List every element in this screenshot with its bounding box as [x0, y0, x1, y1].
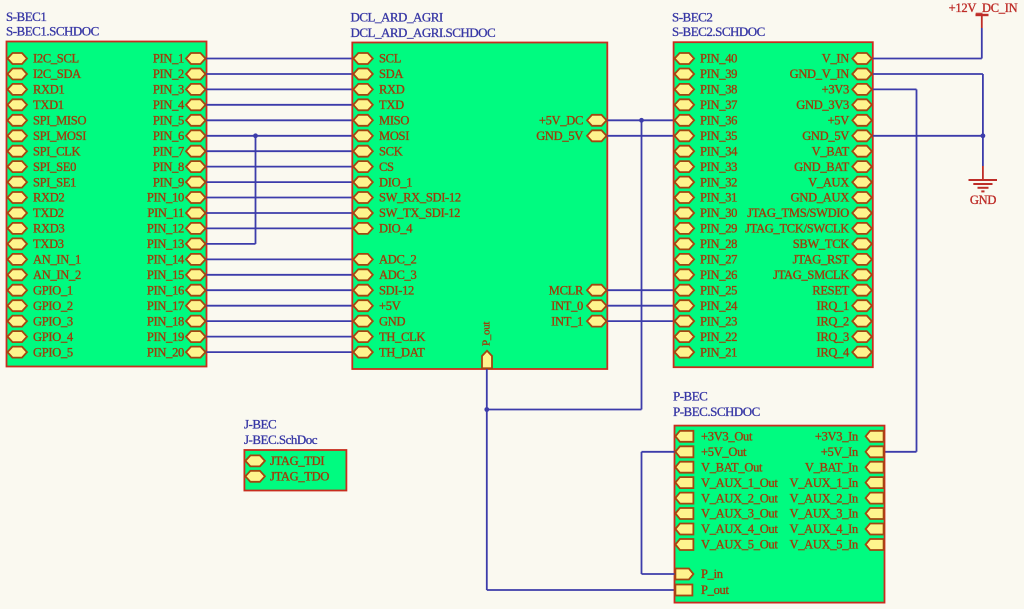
- svg-text:PIN_6: PIN_6: [153, 129, 184, 143]
- svg-text:JTAG_TDO: JTAG_TDO: [270, 470, 329, 484]
- sheet entry DCL RXD: [353, 83, 404, 97]
- svg-text:PIN_27: PIN_27: [700, 253, 737, 267]
- sheet entry S-BEC1 AN_IN_2: [8, 268, 81, 282]
- svg-text:+5V: +5V: [379, 299, 401, 313]
- svg-text:PIN_8: PIN_8: [153, 160, 184, 174]
- wire INT_1 to PIN_23: [607, 320, 673, 322]
- sheet entry P-BEC V_AUX_5_Out: [675, 538, 778, 552]
- wire V_IN riser to +12V_DC_IN: [981, 28, 983, 59]
- wire PIN_13 stub: [207, 243, 256, 245]
- svg-text:AN_IN_2: AN_IN_2: [33, 268, 81, 282]
- sheet entry S-BEC2 +5V: [828, 114, 872, 128]
- sheet entry P-BEC V_AUX_2_In: [789, 491, 883, 505]
- svg-text:PIN_13: PIN_13: [147, 237, 184, 251]
- sheet entry DCL INT_1: [551, 314, 606, 328]
- sheet entry P-BEC P_out: [675, 583, 729, 597]
- svg-text:+5V_Out: +5V_Out: [701, 445, 747, 459]
- sheet entry S-BEC1 SPI_MOSI: [8, 129, 87, 143]
- svg-text:PIN_9: PIN_9: [153, 175, 184, 189]
- wire PIN_17 to +5V: [207, 305, 353, 307]
- wire INT_0 to PIN_24: [607, 305, 673, 307]
- svg-text:PIN_12: PIN_12: [147, 222, 184, 236]
- sheet entry DCL P_out: [481, 322, 493, 369]
- sheet entry S-BEC1 PIN_16: [147, 283, 206, 297]
- svg-text:V_AUX_5_Out: V_AUX_5_Out: [701, 538, 778, 552]
- svg-text:+5V_DC: +5V_DC: [539, 114, 583, 128]
- svg-text:TH_DAT: TH_DAT: [379, 345, 425, 359]
- sheet entry S-BEC2 PIN_32: [675, 175, 738, 189]
- svg-text:PIN_19: PIN_19: [147, 330, 184, 344]
- wire PIN_12 to DIO_4: [207, 227, 353, 229]
- sheet entry P-BEC V_BAT_In: [805, 460, 884, 474]
- svg-text:SPI_SE1: SPI_SE1: [33, 175, 76, 189]
- svg-text:V_AUX_4_In: V_AUX_4_In: [789, 522, 859, 536]
- sheet entry S-BEC1 PIN_9: [153, 175, 206, 189]
- svg-text:TXD2: TXD2: [33, 206, 64, 220]
- sheet entry S-BEC1 PIN_6: [153, 129, 206, 143]
- junction MOSI net: [253, 133, 258, 138]
- wire +3V3 vertical to P-BEC: [916, 89, 918, 451]
- svg-text:PIN_3: PIN_3: [153, 83, 184, 97]
- svg-text:TH_CLK: TH_CLK: [379, 330, 425, 344]
- sheet symbol S-BEC1: [7, 42, 207, 367]
- sheet entry S-BEC2 PIN_27: [675, 253, 738, 267]
- sheet entry DCL TXD: [353, 98, 404, 112]
- svg-text:PIN_38: PIN_38: [700, 83, 737, 97]
- svg-text:GND_BAT: GND_BAT: [794, 160, 850, 174]
- svg-text:P-BEC.SCHDOC: P-BEC.SCHDOC: [673, 404, 760, 419]
- svg-text:V_AUX_4_Out: V_AUX_4_Out: [701, 522, 778, 536]
- svg-text:V_BAT_In: V_BAT_In: [805, 460, 859, 474]
- sheet entry S-BEC2 V_AUX: [808, 175, 872, 189]
- svg-text:GPIO_2: GPIO_2: [33, 299, 73, 313]
- sheet entry S-BEC1 TXD3: [8, 237, 64, 251]
- svg-text:RXD: RXD: [379, 83, 405, 97]
- sheet entry S-BEC1 PIN_19: [147, 330, 206, 344]
- svg-text:MISO: MISO: [379, 114, 409, 128]
- wire +3V3: [873, 88, 917, 90]
- svg-text:PIN_22: PIN_22: [700, 330, 737, 344]
- svg-text:V_BAT_Out: V_BAT_Out: [701, 460, 763, 474]
- svg-text:+5V_In: +5V_In: [821, 445, 859, 459]
- wire PIN_3 to RXD: [207, 88, 353, 90]
- svg-text:PIN_21: PIN_21: [700, 345, 737, 359]
- sheet entry DCL SDI-12: [353, 283, 414, 297]
- wire to +5V_In: [885, 451, 917, 453]
- wire V_IN: [873, 58, 982, 60]
- sheet entry J-BEC JTAG_TDO: [245, 470, 329, 484]
- power port +12V_DC_IN: [949, 1, 1018, 28]
- sheet entry S-BEC1 PIN_20: [147, 345, 206, 359]
- sheet entry S-BEC1 TXD1: [8, 98, 64, 112]
- sheet entry DCL SW_RX_SDI-12: [353, 191, 461, 205]
- sheet entry S-BEC2 PIN_29: [675, 222, 738, 236]
- wire PIN_1 to SCL: [207, 58, 353, 60]
- svg-text:P_out: P_out: [701, 583, 730, 597]
- sheet entry S-BEC2 PIN_33: [675, 160, 738, 174]
- sheet entry S-BEC1 RXD1: [8, 83, 65, 97]
- svg-text:V_BAT: V_BAT: [812, 144, 850, 158]
- svg-text:PIN_4: PIN_4: [153, 98, 185, 112]
- sheet entry S-BEC1 SPI_SE0: [8, 160, 77, 174]
- sheet entry S-BEC2 PIN_23: [675, 314, 738, 328]
- wire GND_5V to PIN_35: [607, 135, 673, 137]
- sheet entry S-BEC2 V_BAT: [812, 144, 872, 158]
- svg-text:JTAG_TDI: JTAG_TDI: [270, 454, 324, 468]
- sheet entry P-BEC V_AUX_4_In: [789, 522, 883, 536]
- wire PIN_14 to ADC_2: [207, 258, 353, 260]
- sheet entry P-BEC V_AUX_3_In: [789, 507, 883, 521]
- wire PIN_7 to SCK: [207, 150, 353, 152]
- svg-text:GPIO_5: GPIO_5: [33, 345, 73, 359]
- svg-text:PIN_25: PIN_25: [700, 283, 737, 297]
- sheet symbol DCL_ARD_AGRI: [352, 43, 607, 370]
- sheet entry S-BEC1 PIN_2: [153, 67, 206, 81]
- svg-text:V_AUX: V_AUX: [808, 175, 849, 189]
- svg-text:ADC_2: ADC_2: [379, 253, 416, 267]
- sheet entry S-BEC1 PIN_12: [147, 222, 206, 236]
- svg-text:P_out: P_out: [481, 322, 493, 346]
- svg-text:V_AUX_1_Out: V_AUX_1_Out: [701, 476, 778, 490]
- svg-text:PIN_33: PIN_33: [700, 160, 737, 174]
- sheet entry S-BEC2 GND_5V: [802, 129, 872, 143]
- svg-text:DCL_ARD_AGRI: DCL_ARD_AGRI: [351, 10, 443, 25]
- wire +5V_DC to PIN_36: [607, 119, 673, 121]
- wire PIN_4 to TXD: [207, 104, 353, 106]
- sheet entry S-BEC2 PIN_28: [675, 237, 738, 251]
- svg-text:I2C_SCL: I2C_SCL: [33, 52, 79, 66]
- wire DCL P_out vertical: [486, 369, 488, 590]
- wire PIN_9 to DIO_1: [207, 181, 353, 183]
- svg-text:IRQ_3: IRQ_3: [816, 330, 849, 344]
- sheet entry S-BEC1 SPI_CLK: [8, 144, 81, 158]
- svg-text:PIN_18: PIN_18: [147, 314, 184, 328]
- sheet entry S-BEC2 IRQ_4: [816, 345, 871, 359]
- svg-text:P-BEC: P-BEC: [673, 389, 707, 404]
- sheet entry J-BEC JTAG_TDI: [245, 454, 324, 468]
- svg-text:S-BEC1.SCHDOC: S-BEC1.SCHDOC: [6, 24, 99, 39]
- svg-text:SCK: SCK: [379, 144, 403, 158]
- svg-text:PIN_5: PIN_5: [153, 114, 184, 128]
- svg-text:SCL: SCL: [379, 52, 401, 66]
- wire PIN_11 to SW_TX_SDI-12: [207, 212, 353, 214]
- svg-text:V_AUX_1_In: V_AUX_1_In: [789, 476, 859, 490]
- wire +5V_DC vertical drop: [641, 120, 643, 409]
- sheet entry DCL DIO_1: [353, 175, 412, 189]
- ground GND: [969, 166, 998, 207]
- svg-text:J-BEC: J-BEC: [244, 417, 276, 432]
- svg-text:P_in: P_in: [701, 567, 724, 581]
- sheet entry DCL SW_TX_SDI-12: [353, 206, 460, 220]
- sheet entry DCL ADC_3: [353, 268, 416, 282]
- svg-text:V_AUX_2_Out: V_AUX_2_Out: [701, 491, 778, 505]
- svg-text:SPI_CLK: SPI_CLK: [33, 144, 80, 158]
- svg-text:MOSI: MOSI: [379, 129, 409, 143]
- svg-text:DIO_1: DIO_1: [379, 175, 412, 189]
- sheet entry S-BEC1 RXD2: [8, 191, 65, 205]
- sheet entry S-BEC2 PIN_34: [675, 144, 739, 158]
- junction GND net: [981, 133, 986, 138]
- sheet entry DCL SCK: [353, 144, 402, 158]
- sheet entry DCL MCLR: [549, 283, 607, 297]
- svg-text:DIO_4: DIO_4: [379, 222, 413, 236]
- svg-text:GPIO_1: GPIO_1: [33, 283, 73, 297]
- wire PIN_18 to GND: [207, 320, 353, 322]
- wire GND_V_IN vertical to GND net: [982, 74, 984, 136]
- svg-text:MCLR: MCLR: [549, 283, 584, 297]
- svg-text:PIN_7: PIN_7: [153, 144, 184, 158]
- sheet entry S-BEC1 PIN_10: [147, 191, 206, 205]
- sheet entry P-BEC V_AUX_4_Out: [675, 522, 778, 536]
- sheet entry S-BEC2 IRQ_1: [816, 299, 871, 313]
- svg-text:IRQ_4: IRQ_4: [816, 345, 850, 359]
- wire +5V_Out stub: [642, 451, 675, 453]
- sheet entry P-BEC +5V_Out: [675, 445, 747, 459]
- sheet entry S-BEC1 PIN_14: [147, 253, 206, 267]
- sheet entry S-BEC2 GND_BAT: [794, 160, 872, 174]
- svg-text:JTAG_RST: JTAG_RST: [793, 253, 850, 267]
- sheet entry DCL GND: [353, 314, 405, 328]
- sheet entry S-BEC1 PIN_7: [153, 144, 206, 158]
- sheet entry S-BEC1 TXD2: [8, 206, 64, 220]
- sheet entry S-BEC2 PIN_35: [675, 129, 738, 143]
- sheet symbol P-BEC: [675, 426, 885, 603]
- svg-text:PIN_11: PIN_11: [147, 206, 184, 220]
- svg-text:SPI_MOSI: SPI_MOSI: [33, 129, 86, 143]
- svg-text:PIN_15: PIN_15: [147, 268, 184, 282]
- junction +5V_DC net: [639, 118, 644, 123]
- sheet entry S-BEC2 JTAG_TCK/SWCLK: [745, 222, 872, 236]
- sheet entry DCL ADC_2: [353, 253, 416, 267]
- sheet entry S-BEC2 PIN_24: [675, 299, 739, 313]
- sheet entry S-BEC1 PIN_5: [153, 114, 206, 128]
- svg-text:PIN_1: PIN_1: [153, 52, 184, 66]
- svg-text:CS: CS: [379, 160, 394, 174]
- svg-text:V_AUX_3_In: V_AUX_3_In: [789, 507, 859, 521]
- sheet entry S-BEC2 PIN_39: [675, 67, 738, 81]
- svg-text:RXD3: RXD3: [33, 222, 64, 236]
- svg-text:IRQ_2: IRQ_2: [816, 314, 849, 328]
- sheet entry DCL +5V: [353, 299, 400, 313]
- svg-text:GND_5V: GND_5V: [802, 129, 849, 143]
- svg-text:PIN_16: PIN_16: [147, 283, 184, 297]
- sheet entry S-BEC1 PIN_1: [153, 52, 206, 66]
- svg-text:V_AUX_5_In: V_AUX_5_In: [789, 538, 859, 552]
- wire PIN_13 vertical to MOSI net: [255, 136, 257, 244]
- svg-text:SW_RX_SDI-12: SW_RX_SDI-12: [379, 191, 461, 205]
- svg-text:AN_IN_1: AN_IN_1: [33, 253, 81, 267]
- sheet entry P-BEC V_AUX_1_In: [789, 476, 883, 490]
- svg-text:SBW_TCK: SBW_TCK: [793, 237, 850, 251]
- svg-text:S-BEC2.SCHDOC: S-BEC2.SCHDOC: [672, 24, 765, 39]
- svg-text:PIN_37: PIN_37: [700, 98, 737, 112]
- svg-text:GND_5V: GND_5V: [536, 129, 583, 143]
- svg-text:SPI_SE0: SPI_SE0: [33, 160, 76, 174]
- sheet entry S-BEC1 RXD3: [8, 222, 65, 236]
- sheet entry S-BEC2 GND_AUX: [791, 191, 872, 205]
- svg-text:PIN_20: PIN_20: [147, 345, 184, 359]
- sheet entry S-BEC1 PIN_8: [153, 160, 206, 174]
- sheet entry S-BEC1 PIN_11: [147, 206, 205, 220]
- wire PIN_20 to TH_DAT: [207, 351, 353, 353]
- sheet entry S-BEC2 JTAG_TMS/SWDIO: [747, 206, 872, 220]
- sheet entry DCL DIO_4: [353, 222, 413, 236]
- sheet entry P-BEC V_BAT_Out: [675, 460, 763, 474]
- sheet entry P-BEC V_AUX_5_In: [789, 538, 883, 552]
- sheet entry S-BEC2 PIN_36: [675, 114, 738, 128]
- wire PIN_8 to CS: [207, 166, 353, 168]
- sheet entry S-BEC2 PIN_31: [675, 191, 738, 205]
- svg-text:PIN_39: PIN_39: [700, 67, 737, 81]
- sheet entry S-BEC2 JTAG_SMCLK: [773, 268, 872, 282]
- sheet entry DCL SCL: [353, 52, 401, 66]
- sheet entry S-BEC1 PIN_17: [147, 299, 206, 313]
- wire MCLR to PIN_25: [607, 289, 673, 291]
- svg-text:GND_AUX: GND_AUX: [791, 191, 850, 205]
- svg-text:GND: GND: [379, 314, 405, 328]
- svg-text:V_IN: V_IN: [822, 52, 850, 66]
- sheet entry S-BEC2 GND_3V3: [796, 98, 872, 112]
- svg-text:PIN_2: PIN_2: [153, 67, 184, 81]
- wire GND net drop: [982, 136, 984, 166]
- svg-text:TXD3: TXD3: [33, 237, 64, 251]
- wire PIN_15 to ADC_3: [207, 274, 353, 276]
- sheet entry S-BEC2 PIN_30: [675, 206, 738, 220]
- svg-text:+3V3_In: +3V3_In: [815, 430, 859, 444]
- svg-text:I2C_SDA: I2C_SDA: [33, 67, 81, 81]
- svg-text:TXD1: TXD1: [33, 98, 64, 112]
- sheet entry S-BEC2 PIN_40: [675, 52, 738, 66]
- svg-text:TXD: TXD: [379, 98, 404, 112]
- svg-text:SPI_MISO: SPI_MISO: [33, 114, 86, 128]
- sheet entry DCL +5V_DC: [539, 114, 607, 128]
- sheet entry P-BEC V_AUX_3_Out: [675, 507, 778, 521]
- sheet entry S-BEC1 GPIO_3: [8, 314, 73, 328]
- svg-text:V_AUX_3_Out: V_AUX_3_Out: [701, 507, 778, 521]
- svg-text:PIN_30: PIN_30: [700, 206, 737, 220]
- sheet entry S-BEC1 PIN_3: [153, 83, 206, 97]
- sheet entry S-BEC2 +3V3: [822, 83, 872, 97]
- sheet entry P-BEC V_AUX_2_Out: [675, 491, 778, 505]
- sheet entry S-BEC1 SPI_MISO: [8, 114, 87, 128]
- sheet entry P-BEC V_AUX_1_Out: [675, 476, 778, 490]
- svg-text:RXD1: RXD1: [33, 83, 64, 97]
- sheet entry S-BEC2 JTAG_RST: [793, 253, 872, 267]
- svg-text:JTAG_SMCLK: JTAG_SMCLK: [773, 268, 849, 282]
- svg-text:GND: GND: [970, 193, 996, 207]
- sheet entry S-BEC1 PIN_4: [153, 98, 206, 112]
- sheet entry S-BEC1 GPIO_5: [8, 345, 73, 359]
- svg-text:GND_3V3: GND_3V3: [796, 98, 849, 112]
- sheet entry S-BEC1 GPIO_1: [8, 283, 73, 297]
- svg-text:DCL_ARD_AGRI.SCHDOC: DCL_ARD_AGRI.SCHDOC: [351, 25, 496, 40]
- svg-text:PIN_36: PIN_36: [700, 114, 737, 128]
- svg-text:INT_0: INT_0: [551, 299, 583, 313]
- svg-text:PIN_10: PIN_10: [147, 191, 184, 205]
- svg-text:IRQ_1: IRQ_1: [816, 299, 849, 313]
- svg-text:PIN_29: PIN_29: [700, 222, 737, 236]
- svg-text:+5V: +5V: [828, 114, 850, 128]
- svg-text:J-BEC.SchDoc: J-BEC.SchDoc: [244, 432, 318, 447]
- sheet entry DCL TH_DAT: [353, 345, 425, 359]
- svg-text:SDA: SDA: [379, 67, 403, 81]
- svg-text:RXD2: RXD2: [33, 191, 64, 205]
- sheet entry S-BEC2 PIN_21: [675, 345, 738, 359]
- sheet entry S-BEC2 RESET: [812, 283, 872, 297]
- sheet entry S-BEC2 IRQ_3: [816, 330, 871, 344]
- wire PIN_2 to SDA: [207, 73, 353, 75]
- wire PIN_16 to SDI-12: [207, 289, 353, 291]
- wire PIN_5 to MISO: [207, 119, 353, 121]
- sheet entry P-BEC +3V3_Out: [675, 430, 753, 444]
- sheet entry DCL INT_0: [551, 299, 606, 313]
- sheet entry P-BEC P_in: [675, 567, 723, 581]
- svg-text:+3V3: +3V3: [822, 83, 849, 97]
- sheet entry S-BEC2 PIN_37: [675, 98, 738, 112]
- svg-text:V_AUX_2_In: V_AUX_2_In: [789, 491, 859, 505]
- svg-text:+3V3_Out: +3V3_Out: [701, 430, 753, 444]
- sheet entry DCL SDA: [353, 67, 403, 81]
- sheet entry S-BEC2 PIN_38: [675, 83, 738, 97]
- svg-text:PIN_17: PIN_17: [147, 299, 184, 313]
- wire PIN_19 to TH_CLK: [207, 336, 353, 338]
- sheet entry S-BEC1 PIN_13: [147, 237, 206, 251]
- sheet entry S-BEC1 I2C_SDA: [8, 67, 82, 81]
- svg-text:SDI-12: SDI-12: [379, 283, 414, 297]
- svg-text:JTAG_TCK/SWCLK: JTAG_TCK/SWCLK: [745, 222, 849, 236]
- sheet entry S-BEC2 GND_V_IN: [790, 67, 872, 81]
- svg-text:GPIO_4: GPIO_4: [33, 330, 74, 344]
- svg-text:INT_1: INT_1: [551, 314, 583, 328]
- wire PIN_10 to SW_RX_SDI-12: [207, 197, 353, 199]
- sheet entry S-BEC2 PIN_22: [675, 330, 738, 344]
- wire PIN_6 to MOSI: [207, 135, 353, 137]
- svg-text:PIN_32: PIN_32: [700, 175, 737, 189]
- svg-text:PIN_24: PIN_24: [700, 299, 738, 313]
- sheet entry DCL MISO: [353, 114, 409, 128]
- sheet entry S-BEC2 PIN_26: [675, 268, 738, 282]
- sheet entry S-BEC2 PIN_25: [675, 283, 738, 297]
- svg-text:+12V_DC_IN: +12V_DC_IN: [949, 1, 1018, 15]
- sheet entry S-BEC2 IRQ_2: [816, 314, 871, 328]
- svg-text:PIN_14: PIN_14: [147, 253, 185, 267]
- sheet entry S-BEC1 AN_IN_1: [8, 253, 81, 267]
- svg-text:ADC_3: ADC_3: [379, 268, 416, 282]
- sheet entry S-BEC1 PIN_18: [147, 314, 206, 328]
- wire +5V_Out vertical: [641, 452, 643, 574]
- svg-text:PIN_28: PIN_28: [700, 237, 737, 251]
- wire to P-BEC P_out: [487, 589, 675, 591]
- svg-text:SW_TX_SDI-12: SW_TX_SDI-12: [379, 206, 460, 220]
- wire GND_5V: [873, 135, 983, 137]
- wire GND_V_IN: [873, 73, 983, 75]
- svg-text:PIN_26: PIN_26: [700, 268, 737, 282]
- sheet entry S-BEC1 I2C_SCL: [8, 52, 79, 66]
- junction P_out net: [484, 407, 489, 412]
- sheet entry DCL GND_5V: [536, 129, 606, 143]
- svg-text:GPIO_3: GPIO_3: [33, 314, 73, 328]
- sheet entry DCL CS: [353, 160, 394, 174]
- svg-text:PIN_35: PIN_35: [700, 129, 737, 143]
- svg-text:GND_V_IN: GND_V_IN: [790, 67, 850, 81]
- wire horizontal to P_out net: [487, 409, 642, 411]
- svg-text:S-BEC2: S-BEC2: [672, 10, 712, 25]
- svg-text:JTAG_TMS/SWDIO: JTAG_TMS/SWDIO: [747, 206, 849, 220]
- sheet entry P-BEC +5V_In: [821, 445, 884, 459]
- wire to P_in: [642, 573, 675, 575]
- sheet entry S-BEC2 V_IN: [822, 52, 872, 66]
- sheet symbol J-BEC: [244, 450, 346, 491]
